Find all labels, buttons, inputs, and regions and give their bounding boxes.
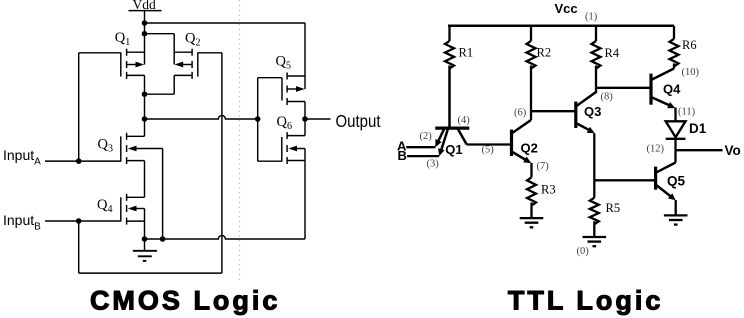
- wire (8) node to Q4 base: [596, 87, 651, 89]
- wire InputA loop to Q1 gate: [78, 53, 80, 161]
- ground Q5: [664, 215, 688, 224]
- transistor Q1 (PMOS): [79, 34, 145, 94]
- node ground junction right: [160, 236, 166, 242]
- ground R5: [583, 237, 607, 246]
- node Vdd junction upper: [142, 20, 148, 26]
- node InputA junction: [76, 158, 82, 164]
- ground (CMOS): [133, 239, 157, 261]
- node inverter input junction: [255, 116, 261, 122]
- transistor Q2 (NPN): [512, 120, 532, 163]
- wire inverter gate vertical: [257, 78, 259, 162]
- node ground junction left: [142, 236, 148, 242]
- power Vdd symbol (underline bar): [129, 10, 162, 12]
- wire input A: [406, 146, 435, 148]
- diode D1: [666, 108, 686, 151]
- svg-text:D1: D1: [689, 121, 707, 136]
- svg-text:Q1: Q1: [445, 142, 462, 157]
- svg-text:B: B: [398, 148, 407, 163]
- svg-text:R5: R5: [606, 201, 621, 215]
- transistor Q4 (NMOS): [45, 194, 145, 239]
- divider (dotted separator line): [239, 0, 241, 283]
- resistor R5: [590, 180, 599, 237]
- svg-text:R2: R2: [537, 46, 552, 60]
- node NAND drain junction: [142, 91, 148, 97]
- svg-text:R1: R1: [459, 46, 474, 60]
- resistor R6: [670, 26, 679, 69]
- node output junction right: [302, 116, 308, 122]
- wire Q5 source drop: [304, 23, 306, 89]
- wire (12) to Q5 collector: [674, 150, 676, 162]
- node Vdd junction lower: [142, 31, 148, 37]
- resistor R2: [527, 26, 536, 120]
- svg-text:Q5: Q5: [667, 173, 686, 188]
- wire Vdd top rail to Q5: [145, 22, 306, 24]
- wire Q2 gate vertical: [221, 53, 223, 273]
- svg-text:(11): (11): [678, 107, 696, 118]
- transistor Q5 (NPN): [656, 163, 676, 216]
- svg-text:(0): (0): [577, 246, 590, 257]
- svg-text:Vo: Vo: [725, 143, 741, 158]
- wire output node vertical: [144, 94, 146, 136]
- svg-text:R4: R4: [605, 46, 620, 60]
- svg-text:Vcc: Vcc: [555, 1, 578, 16]
- node output junction left: [142, 116, 148, 122]
- transistor Q4 (NPN): [651, 69, 675, 109]
- wire ground rail with hop over Q2 gate line: [145, 236, 306, 239]
- svg-text:(7): (7): [537, 161, 550, 172]
- svg-text:CMOS Logic: CMOS Logic: [90, 286, 281, 316]
- transistor Q3 (NMOS): [45, 133, 163, 239]
- resistor R4: [592, 26, 601, 88]
- wire Vdd stem: [144, 11, 146, 34]
- svg-text:R6: R6: [682, 38, 697, 52]
- svg-text:(12): (12): [647, 144, 665, 155]
- wire Q1 collector to Q2 base: [467, 143, 512, 145]
- transistor Q2 (PMOS): [145, 34, 222, 94]
- wire InputB loop down: [78, 221, 80, 273]
- transistor Q1 (multi-emitter NPN): [435, 66, 469, 157]
- resistor R1: [445, 26, 454, 128]
- svg-text:(5): (5): [482, 145, 495, 156]
- svg-text:Output: Output: [336, 111, 381, 131]
- wire Q3 emitter to Q5 base: [594, 179, 655, 181]
- transistor Q6 (NMOS): [258, 132, 305, 239]
- svg-text:Q2: Q2: [521, 141, 538, 156]
- svg-text:(6): (6): [514, 107, 527, 118]
- wire Q3 emitter down: [593, 133, 595, 180]
- ground R3: [520, 218, 544, 227]
- svg-text:(3): (3): [427, 159, 440, 170]
- wire input B: [407, 155, 439, 157]
- svg-text:TTL Logic: TTL Logic: [508, 286, 664, 316]
- resistor R3: [527, 163, 536, 218]
- transistor Q3 (NPN): [576, 88, 596, 134]
- svg-text:Q4: Q4: [663, 82, 681, 97]
- transistor Q5 (PMOS): [258, 73, 305, 136]
- wire bottom rail to Q2 gate: [79, 272, 222, 274]
- wire Q2-Q3 branch: [531, 110, 576, 112]
- node InputB junction: [76, 218, 82, 224]
- svg-text:R3: R3: [541, 183, 556, 197]
- svg-text:(10): (10): [682, 67, 700, 78]
- svg-text:(1): (1): [585, 12, 598, 23]
- svg-text:Q3: Q3: [584, 104, 601, 119]
- svg-text:(4): (4): [458, 115, 471, 126]
- wire output row with hop over Q2 gate line: [145, 116, 258, 120]
- svg-text:(8): (8): [601, 92, 614, 103]
- wire Vcc rail: [448, 25, 674, 28]
- wire output lead: [305, 118, 331, 120]
- svg-text:(2): (2): [420, 131, 433, 142]
- wire Vo lead: [676, 149, 723, 151]
